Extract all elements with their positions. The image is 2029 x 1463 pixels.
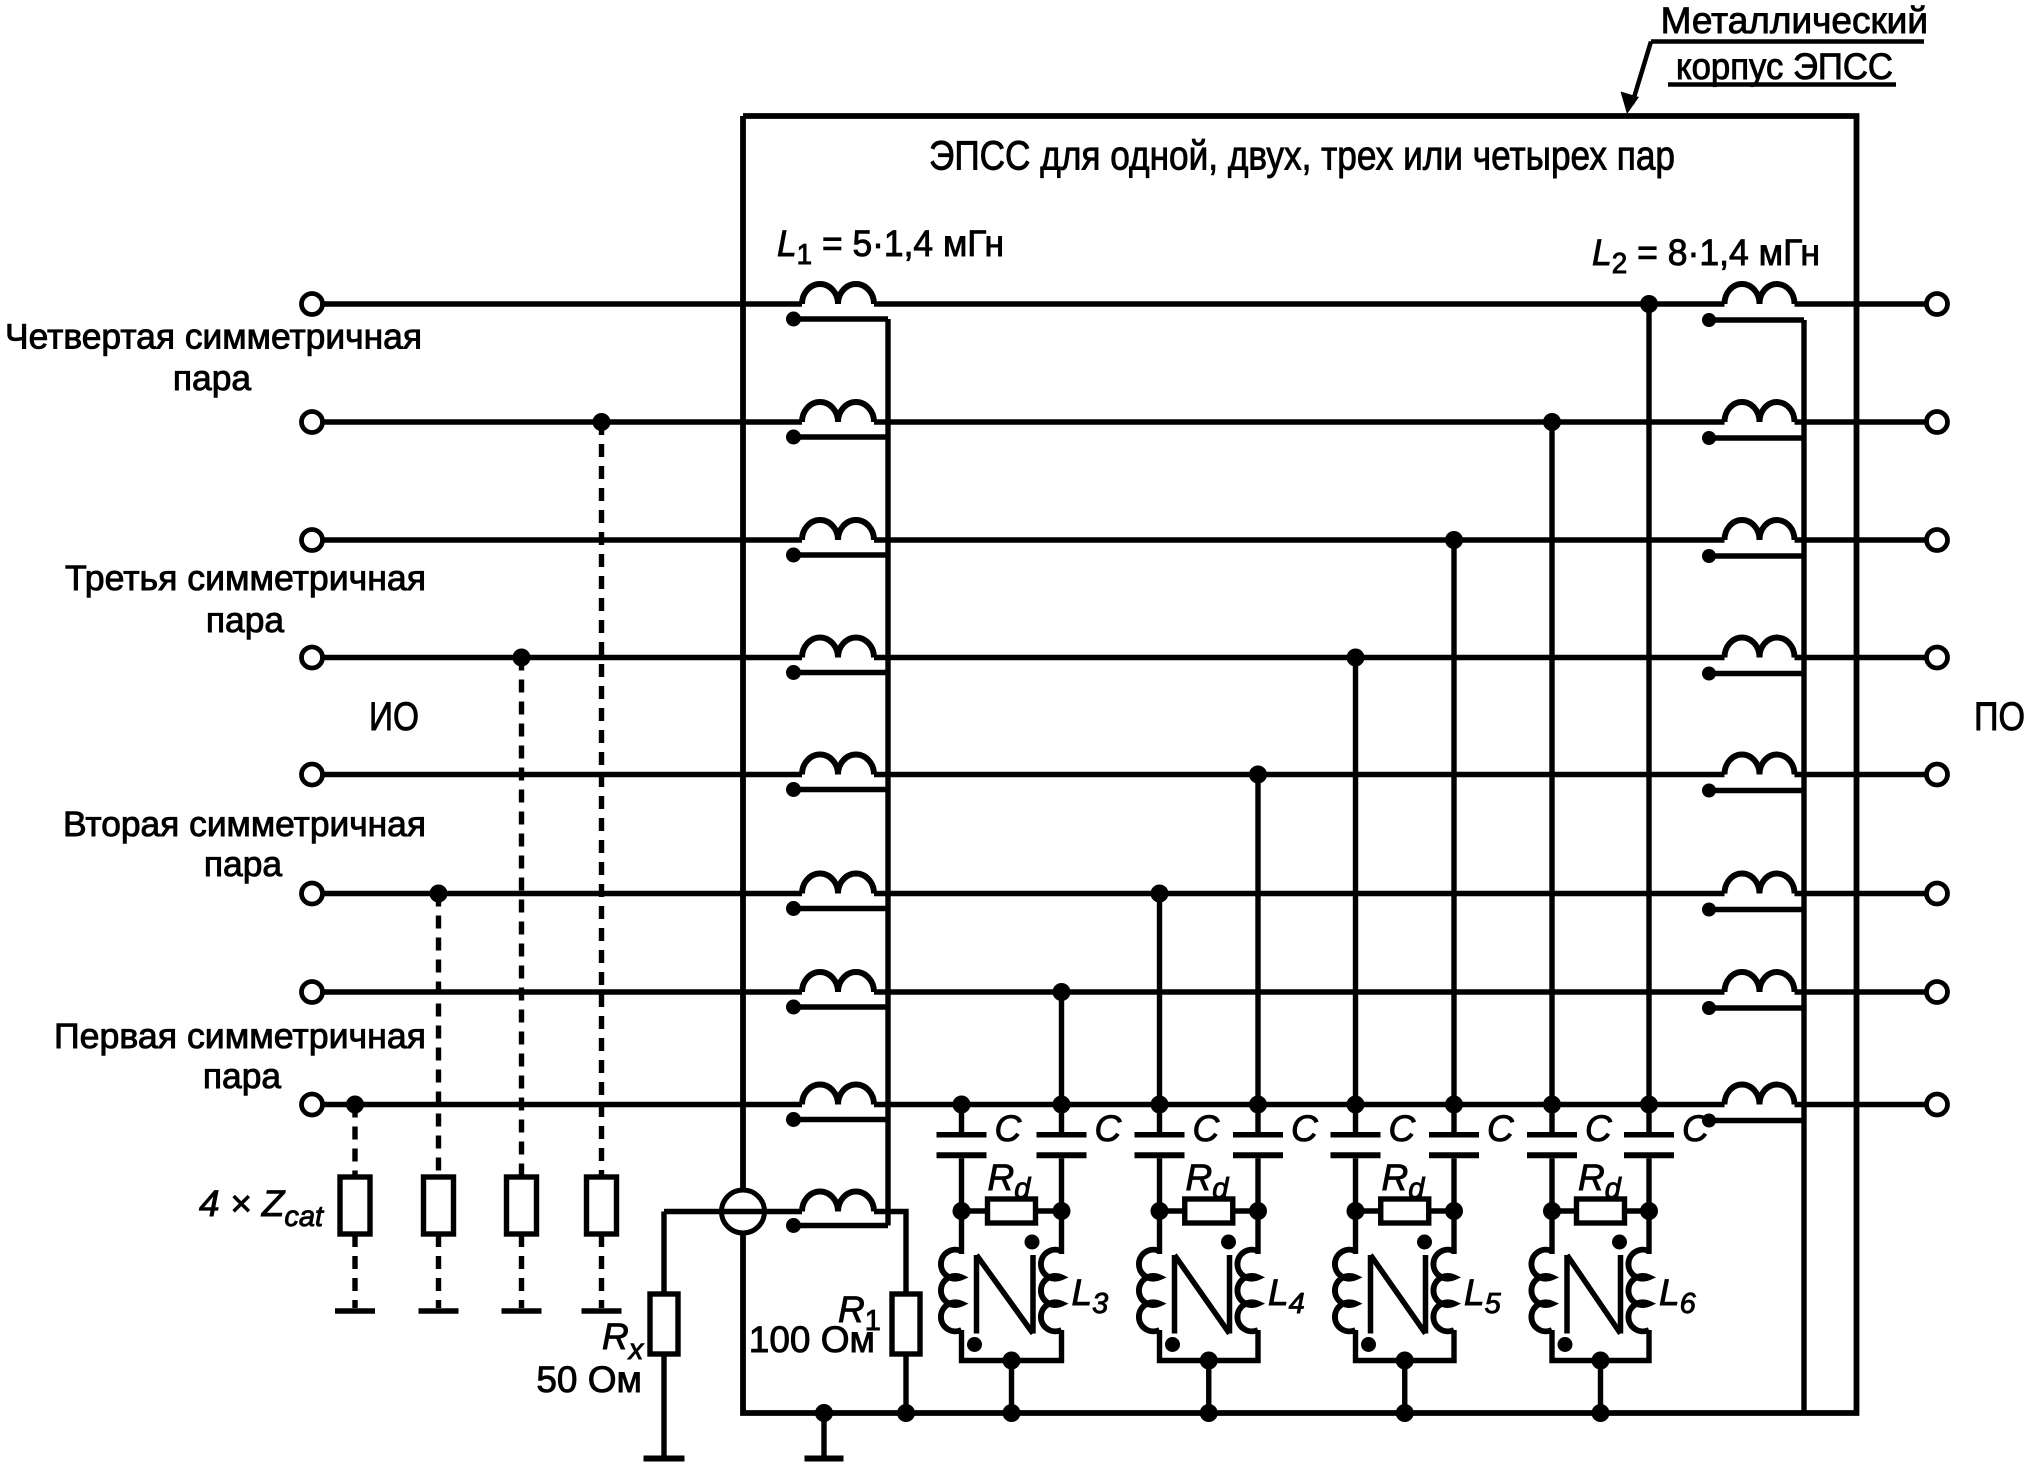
wire row 3 <box>325 537 1926 542</box>
ground: Zcat 3 termination bar <box>502 1308 542 1314</box>
ground: Zcat 4 termination bar <box>582 1308 622 1314</box>
terminal ПО row 1 <box>1927 294 1948 315</box>
svg-text:ИО: ИО <box>369 695 419 739</box>
wire row 9 (Rx input to R1) <box>664 1212 906 1295</box>
terminal ИО row 7 <box>302 982 323 1003</box>
polarity dot L5 lower <box>1361 1337 1376 1352</box>
inductor L2 winding 5 <box>1702 755 1804 798</box>
svg-text:пара: пара <box>206 600 285 640</box>
wire: dashed lead to Zcat 1 <box>352 1105 357 1178</box>
inductor L2 winding 7 <box>1702 972 1804 1015</box>
junction: L4 at ground bus <box>1200 1404 1218 1422</box>
junction: link at wire 3 <box>1445 531 1463 549</box>
svg-text:C: C <box>1291 1108 1318 1149</box>
terminal ПО row 4 <box>1927 647 1948 668</box>
wire row 1 <box>325 301 1926 306</box>
junction: link at wire 8 <box>1249 1096 1267 1114</box>
terminal ИО row 8 <box>302 1094 323 1115</box>
capacitor C (column 2) <box>1037 1135 1087 1155</box>
polarity dot L5 upper <box>1417 1235 1432 1250</box>
wire: vertical link wire 2 to capacitor C7 <box>1549 422 1554 1135</box>
label: Третья симметричная пара <box>65 558 426 640</box>
junction: link at wire 8 <box>1445 1096 1463 1114</box>
transformer L3 right winding <box>1041 1250 1062 1332</box>
inductor L2 winding 6 <box>1702 874 1804 917</box>
junction: link at wire 8 <box>1151 1096 1169 1114</box>
ground: Rx earth bar <box>644 1456 685 1462</box>
junction: link at wire 2 <box>1543 413 1561 431</box>
junction: L3 at ground bus <box>1003 1404 1021 1422</box>
junction: link at wire 5 <box>1249 766 1267 784</box>
junction: L3 bottom <box>1003 1352 1021 1370</box>
wire: vertical link wire 7 to capacitor C2 <box>1059 992 1064 1135</box>
resistor Rd (L4 cell) <box>1160 1199 1259 1223</box>
wire: dashed lead below Zcat 4 <box>599 1234 604 1308</box>
wire row 5 <box>325 772 1926 777</box>
svg-text:ЭПСС для одной, двух, трех или: ЭПСС для одной, двух, трех или четырех п… <box>929 133 1675 179</box>
svg-text:пара: пара <box>203 1056 282 1096</box>
wire: capacitor to winding (column 1) <box>959 1158 964 1254</box>
wire: capacitor to winding (column 3) <box>1157 1158 1162 1254</box>
wire: dashed lead below Zcat 3 <box>519 1234 524 1308</box>
wire: vertical link wire 8 to capacitor C1 <box>959 1105 964 1135</box>
terminal ИО row 6 <box>302 883 323 904</box>
label: Вторая симметричная пара <box>63 804 426 884</box>
terminal ПО row 2 <box>1927 412 1948 433</box>
polarity dot L4 upper <box>1221 1235 1236 1250</box>
insulated feedthrough (circle) on case wall <box>722 1190 765 1233</box>
polarity dot L4 lower <box>1165 1337 1180 1352</box>
junction: L5 at ground bus <box>1396 1404 1414 1422</box>
junction: link at wire 8 <box>1053 1096 1071 1114</box>
transformer L5 left winding <box>1335 1250 1356 1332</box>
junction: Rd left (L5 cell) <box>1347 1202 1365 1220</box>
enclosure: металлический корпус ЭПСС (metal case outline) <box>743 116 1857 1413</box>
inductor L2 winding 2 <box>1702 402 1804 445</box>
inductor L2 winding 8 <box>1702 1085 1804 1128</box>
junction: L6 at ground bus <box>1592 1404 1610 1422</box>
wire: L5 bottom connections <box>1356 1330 1455 1413</box>
svg-text:Первая симметричная: Первая симметричная <box>54 1016 426 1056</box>
junction: Rd right (L3 cell) <box>1053 1202 1071 1220</box>
wire: L2 common bus <box>1801 320 1806 1413</box>
inductor L1 winding 5 <box>786 755 888 797</box>
resistor Rd (L6 cell) <box>1552 1199 1649 1223</box>
wire row 7 <box>325 989 1926 994</box>
svg-text:C: C <box>1193 1108 1220 1149</box>
capacitor C (column 7) <box>1527 1135 1577 1155</box>
junction: L4 bottom <box>1200 1352 1218 1370</box>
junction: dashed tap on wire 6 <box>430 885 448 903</box>
inductor L2 winding 3 <box>1702 520 1804 563</box>
wire: capacitor to winding (column 2) <box>1059 1158 1064 1254</box>
wire: capacitor to winding (column 8) <box>1646 1158 1651 1254</box>
wire: capacitor to winding (column 6) <box>1451 1158 1456 1254</box>
inductor L1 winding 6 <box>786 874 888 917</box>
resistor R1 <box>892 1294 920 1354</box>
wire: dashed lead to Zcat 2 <box>436 894 441 1178</box>
wire: dashed lead below Zcat 2 <box>436 1234 441 1308</box>
svg-text:Вторая симметричная: Вторая симметричная <box>63 804 426 844</box>
resistor Rd (L3 cell) <box>962 1199 1062 1223</box>
resistor Zcat 3 <box>507 1177 537 1234</box>
terminal ПО row 6 <box>1927 883 1948 904</box>
wire: dashed lead to Zcat 3 <box>519 658 524 1178</box>
label: Металлический корпус ЭПСС with leader arrow <box>1621 0 1929 114</box>
junction: Rd left (L6 cell) <box>1543 1202 1561 1220</box>
resistor Zcat 1 <box>340 1177 370 1234</box>
svg-text:корпус ЭПСС: корпус ЭПСС <box>1676 46 1893 87</box>
transformer L5 core (N mark) <box>1371 1255 1426 1334</box>
terminal ИО row 3 <box>302 530 323 551</box>
wire: R1 to ground bus <box>903 1354 908 1413</box>
resistor Zcat 4 <box>587 1177 617 1234</box>
transformer L5 right winding <box>1433 1250 1454 1332</box>
wire: dashed lead below Zcat 1 <box>352 1234 357 1308</box>
inductor L1 winding 7 <box>786 972 888 1015</box>
svg-text:Третья симметричная: Третья симметричная <box>65 558 426 598</box>
svg-text:C: C <box>1682 1108 1709 1149</box>
junction: link at wire 6 <box>1151 885 1169 903</box>
wire: capacitor to winding (column 4) <box>1255 1158 1260 1254</box>
transformer L6 left winding <box>1531 1250 1552 1332</box>
terminal ИО row 2 <box>302 412 323 433</box>
ground: Zcat 2 termination bar <box>419 1308 459 1314</box>
junction: link at wire 1 <box>1640 295 1658 313</box>
wire: L1 common bus <box>885 319 890 1226</box>
wire: dashed lead to Zcat 4 <box>599 422 604 1177</box>
capacitor C (column 5) <box>1331 1135 1381 1155</box>
junction: L5 bottom <box>1396 1352 1414 1370</box>
wire: vertical link wire 4 to capacitor C5 <box>1353 658 1358 1135</box>
capacitor C (column 1) <box>937 1135 987 1155</box>
capacitor C (column 4) <box>1233 1135 1283 1155</box>
transformer L4 left winding <box>1139 1250 1160 1332</box>
junction: L6 bottom <box>1592 1352 1610 1370</box>
inductor L1 winding 1 <box>786 284 888 327</box>
capacitor C (column 6) <box>1429 1135 1479 1155</box>
terminal ИО row 1 <box>302 294 323 315</box>
svg-text:C: C <box>995 1108 1022 1149</box>
terminal ИО row 4 <box>302 647 323 668</box>
capacitor C (column 8) <box>1624 1135 1674 1155</box>
junction: Rd left (L4 cell) <box>1151 1202 1169 1220</box>
transformer L4 right winding <box>1237 1250 1258 1332</box>
svg-text:Металлический: Металлический <box>1661 0 1928 41</box>
transformer L6 core (N mark) <box>1567 1255 1621 1334</box>
wire row 2 <box>325 419 1926 424</box>
wire: vertical link wire 5 to capacitor C4 <box>1255 775 1260 1135</box>
wire: vertical link wire 1 to capacitor C8 <box>1646 304 1651 1135</box>
inductor L1 winding 3 <box>786 520 888 563</box>
svg-text:C: C <box>1095 1108 1122 1149</box>
svg-text:C: C <box>1389 1108 1416 1149</box>
capacitor C (column 3) <box>1135 1135 1185 1155</box>
inductor L1 winding 9 <box>786 1192 888 1234</box>
inductor L1 winding 2 <box>786 402 888 445</box>
polarity dot L3 lower <box>967 1337 982 1352</box>
svg-text:C: C <box>1585 1108 1612 1149</box>
inductor L1 winding 4 <box>786 638 888 681</box>
resistor Rd (L5 cell) <box>1356 1199 1455 1223</box>
transformer L6 right winding <box>1628 1250 1649 1332</box>
junction: link at wire 8 <box>1543 1096 1561 1114</box>
wire: L4 bottom connections <box>1160 1330 1259 1413</box>
wire: capacitor to winding (column 5) <box>1353 1158 1358 1254</box>
terminal ПО row 3 <box>1927 530 1948 551</box>
junction: link at wire 8 <box>1640 1096 1658 1114</box>
wire row 4 <box>325 655 1926 660</box>
svg-text:ПО: ПО <box>1974 695 2025 739</box>
junction: link at wire 7 <box>1053 983 1071 1001</box>
svg-text:100 Ом: 100 Ом <box>749 1319 875 1360</box>
wire row 6 <box>325 891 1926 896</box>
svg-text:Четвертая симметричная: Четвертая симметричная <box>5 317 422 357</box>
polarity dot L3 upper <box>1025 1235 1040 1250</box>
ground: case earth symbol <box>805 1404 844 1459</box>
wire row 8 <box>325 1102 1926 1107</box>
wire: L6 bottom connections <box>1552 1330 1649 1413</box>
ground: Zcat 1 termination bar <box>335 1308 375 1314</box>
wire: L3 bottom connections <box>962 1330 1062 1413</box>
wire: Rx to ground <box>661 1354 666 1456</box>
label: Первая симметричная пара <box>54 1016 426 1096</box>
wire: capacitor to winding (column 7) <box>1549 1158 1554 1254</box>
inductor L2 winding 4 <box>1702 638 1804 681</box>
svg-text:C: C <box>1487 1108 1514 1149</box>
junction: Rd right (L5 cell) <box>1445 1202 1463 1220</box>
svg-text:пара: пара <box>173 358 252 398</box>
inductor L2 winding 1 <box>1702 284 1804 327</box>
polarity dot L6 upper <box>1612 1235 1627 1250</box>
terminal ИО row 5 <box>302 764 323 785</box>
transformer L3 core (N mark) <box>977 1255 1034 1334</box>
junction: link at wire 8 <box>953 1096 971 1114</box>
svg-text:50 Ом: 50 Ом <box>536 1359 642 1400</box>
svg-text:пара: пара <box>204 844 283 884</box>
inductor L1 winding 8 <box>786 1085 888 1128</box>
wire: vertical link wire 6 to capacitor C3 <box>1157 894 1162 1135</box>
label: Четвертая симметричная пара <box>5 317 422 399</box>
junction: Rd right (L4 cell) <box>1249 1202 1267 1220</box>
junction: link at wire 4 <box>1347 649 1365 667</box>
transformer L4 core (N mark) <box>1175 1255 1230 1334</box>
resistor Zcat 2 <box>424 1177 454 1234</box>
junction: Rd right (L6 cell) <box>1640 1202 1658 1220</box>
junction: dashed tap on wire 8 <box>346 1096 364 1114</box>
junction: dashed tap on wire 4 <box>513 649 531 667</box>
junction: Rd left (L3 cell) <box>953 1202 971 1220</box>
terminal ПО row 8 <box>1927 1094 1948 1115</box>
polarity dot L6 lower <box>1558 1337 1573 1352</box>
transformer L3 left winding <box>941 1250 962 1332</box>
junction: R1 at ground bus <box>897 1404 915 1422</box>
terminal ПО row 7 <box>1927 982 1948 1003</box>
junction: link at wire 8 <box>1347 1096 1365 1114</box>
resistor Rx <box>650 1294 678 1354</box>
wire: vertical link wire 3 to capacitor C6 <box>1451 540 1456 1135</box>
junction: dashed tap on wire 2 <box>593 413 611 431</box>
terminal ПО row 5 <box>1927 764 1948 785</box>
